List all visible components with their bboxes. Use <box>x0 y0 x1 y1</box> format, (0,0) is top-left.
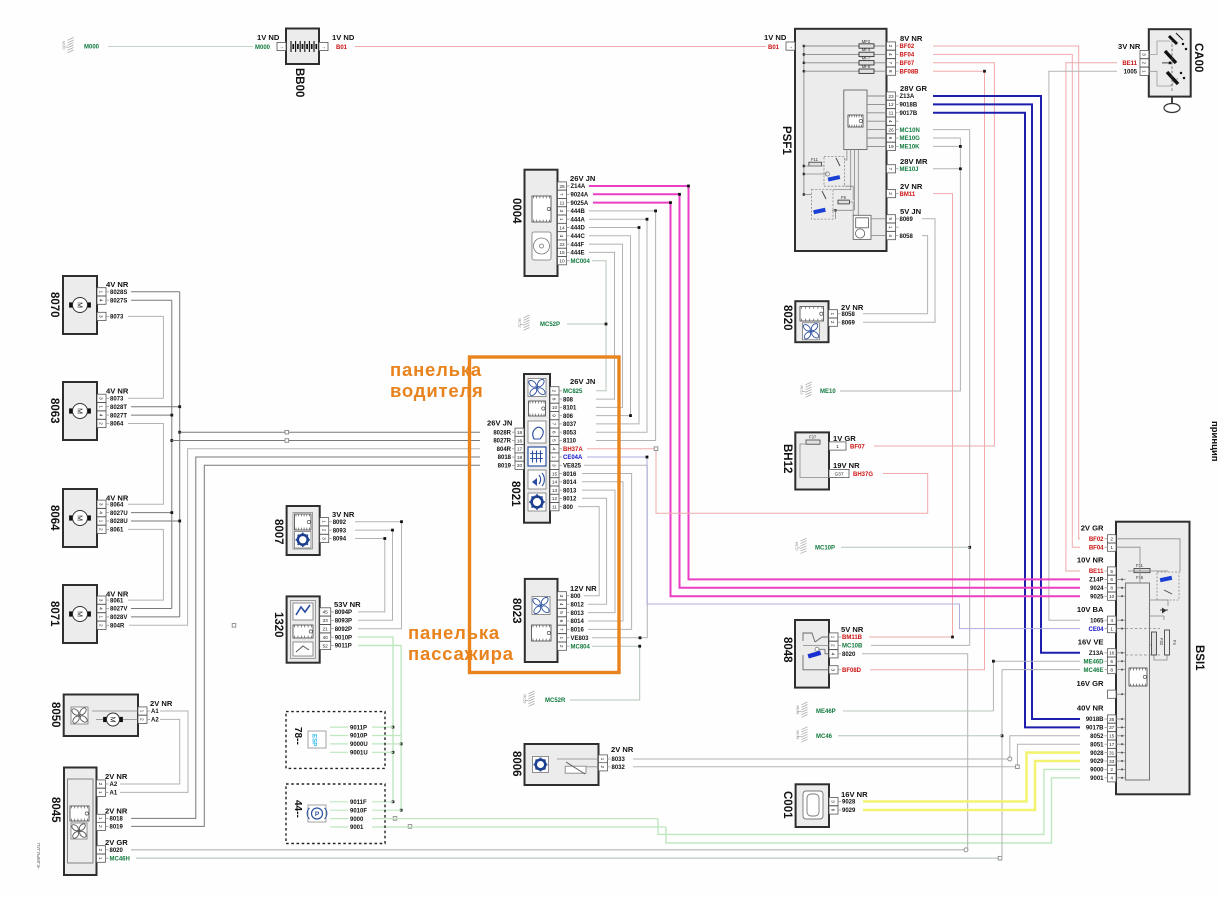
svg-text:7: 7 <box>887 61 893 64</box>
svg-text:444F: 444F <box>571 242 585 248</box>
svg-text:8021: 8021 <box>509 481 521 507</box>
svg-text:F32: F32 <box>1159 638 1164 646</box>
svg-text:9025A: 9025A <box>571 201 589 207</box>
svg-text:1: 1 <box>551 456 557 459</box>
svg-text:37: 37 <box>1109 725 1115 731</box>
svg-text:1V ND: 1V ND <box>257 33 280 42</box>
wire 8073 8070 to 8063 <box>128 316 163 398</box>
svg-text:8019: 8019 <box>498 464 512 470</box>
passenger panel switch unit 8023 <box>510 579 597 662</box>
svg-text:→: → <box>788 44 793 50</box>
svg-text:8013: 8013 <box>571 611 585 617</box>
svg-text:7: 7 <box>887 167 893 170</box>
svg-text:пассажира: пассажира <box>408 643 514 664</box>
svg-text:8052: 8052 <box>1090 734 1104 740</box>
svg-text:A1: A1 <box>110 791 118 797</box>
svg-text:B01: B01 <box>336 45 348 51</box>
svg-text:8058: 8058 <box>842 312 856 318</box>
svg-text:9028: 9028 <box>842 800 856 806</box>
svg-text:1: 1 <box>558 636 564 639</box>
svg-text:444B: 444B <box>571 209 586 215</box>
svg-text:2: 2 <box>98 624 104 627</box>
svg-text:8: 8 <box>1110 667 1113 673</box>
wire 8016 8021 to 8023 <box>582 474 632 630</box>
svg-text:5V NR: 5V NR <box>841 625 864 634</box>
svg-text:3: 3 <box>830 800 836 803</box>
svg-text:MC46: MC46 <box>796 730 800 739</box>
svg-text:78--: 78-- <box>292 727 303 745</box>
svg-text:8094: 8094 <box>333 537 347 543</box>
svg-text:28V MR: 28V MR <box>900 157 928 166</box>
svg-text:1: 1 <box>98 405 104 408</box>
svg-text:8012: 8012 <box>571 602 585 608</box>
svg-text:40V NR: 40V NR <box>1077 704 1104 713</box>
svg-text:9011P: 9011P <box>350 725 367 731</box>
svg-text:→: → <box>321 45 326 51</box>
svg-text:PSF1: PSF1 <box>780 126 792 155</box>
svg-text:BF04: BF04 <box>1089 545 1104 551</box>
svg-text:804R: 804R <box>497 447 512 453</box>
svg-text:11: 11 <box>560 200 565 206</box>
wire 8093 8007 to 1320 8093P <box>355 530 393 620</box>
wire 444B 0004 to 8021 8110 <box>589 211 656 441</box>
wire 8019 8021 to 8045 <box>131 465 480 826</box>
svg-text:MC52: MC52 <box>523 695 527 704</box>
wire MC52P ground to MC004 net <box>567 323 606 325</box>
wire 9010P 1320 to dashed 78 box <box>358 637 393 802</box>
svg-text:8092P: 8092P <box>335 627 352 633</box>
svg-text:10: 10 <box>1109 594 1115 600</box>
svg-text:444E: 444E <box>571 251 585 257</box>
svg-text:1: 1 <box>829 312 835 315</box>
wire 800 8021 to 8023 <box>578 507 599 596</box>
svg-text:2V NR: 2V NR <box>150 699 173 708</box>
svg-text:VE803: VE803 <box>571 636 590 642</box>
wire 9000 to BSI1 pale green <box>658 769 1080 834</box>
svg-text:17: 17 <box>1109 742 1115 748</box>
svg-text:Z14A: Z14A <box>571 184 586 190</box>
wire 444A 0004 to 8021 8053 <box>589 219 647 432</box>
svg-text:CA00: CA00 <box>1192 43 1204 72</box>
heater control 8020 <box>781 301 864 342</box>
svg-text:M: M <box>108 717 115 723</box>
svg-text:MC10N: MC10N <box>900 128 920 134</box>
svg-text:панелька: панелька <box>408 622 500 643</box>
svg-text:9025: 9025 <box>1090 594 1104 600</box>
svg-text:MC46: MC46 <box>816 734 833 740</box>
svg-text:26: 26 <box>888 127 894 133</box>
svg-text:8033: 8033 <box>612 757 626 763</box>
svg-text:16: 16 <box>517 438 523 444</box>
wire VE825 8021 to 8023 VE803 <box>584 465 647 638</box>
svg-text:8027T: 8027T <box>110 413 127 419</box>
svg-text:8058: 8058 <box>900 234 914 240</box>
switch module 8007 <box>272 506 355 555</box>
svg-text:3: 3 <box>558 210 564 213</box>
svg-text:1: 1 <box>97 857 103 860</box>
svg-text:1: 1 <box>1110 626 1113 632</box>
svg-text:P: P <box>315 811 320 818</box>
svg-text:444D: 444D <box>571 226 586 232</box>
svg-text:9029: 9029 <box>1090 759 1104 765</box>
svg-text:40: 40 <box>323 635 329 641</box>
svg-text:BH37A: BH37A <box>563 447 583 453</box>
wire MC10P ground to MC10B 8048 <box>841 546 970 548</box>
svg-text:26V JN: 26V JN <box>570 377 595 386</box>
svg-text:7: 7 <box>558 193 564 196</box>
svg-text:8110: 8110 <box>563 439 577 445</box>
svg-text:4: 4 <box>887 120 893 123</box>
svg-text:8016: 8016 <box>563 472 577 478</box>
svg-text:6: 6 <box>830 809 836 812</box>
svg-text:MC46H: MC46H <box>110 856 130 862</box>
svg-text:4: 4 <box>98 414 104 417</box>
svg-text:M000: M000 <box>84 45 100 51</box>
dashed box 78 ESP <box>286 712 385 769</box>
svg-text:1: 1 <box>836 444 839 450</box>
svg-text:28V GR: 28V GR <box>900 84 928 93</box>
wire 444D 0004 to 8021 8037 <box>589 228 639 424</box>
svg-text:BF02: BF02 <box>900 44 915 50</box>
svg-text:5: 5 <box>1110 569 1113 575</box>
connector C001 <box>781 784 868 827</box>
svg-text:2: 2 <box>887 45 893 48</box>
svg-text:MF7: MF7 <box>862 56 871 61</box>
svg-text:8093: 8093 <box>333 528 347 534</box>
ground MC52P <box>518 315 561 330</box>
svg-text:45: 45 <box>323 610 329 616</box>
wire 8018 8021 to 8045 <box>131 457 480 818</box>
svg-text:1V ND: 1V ND <box>332 33 355 42</box>
wire A2 8050 to 8045 <box>120 719 180 784</box>
svg-text:8051: 8051 <box>1090 742 1104 748</box>
svg-text:2: 2 <box>97 783 103 786</box>
svg-text:водителя: водителя <box>390 380 484 401</box>
svg-text:3: 3 <box>98 397 104 400</box>
window motor 8063 <box>48 382 129 440</box>
wire rows inside dashed box 44 <box>330 801 348 803</box>
svg-text:BH37G: BH37G <box>853 472 873 478</box>
svg-text:8050: 8050 <box>49 702 61 728</box>
svg-text:26V JN: 26V JN <box>487 419 512 428</box>
svg-text:8027R: 8027R <box>493 439 511 445</box>
svg-text:800: 800 <box>563 505 574 511</box>
svg-text:6: 6 <box>887 137 893 140</box>
svg-text:19: 19 <box>517 455 523 461</box>
svg-text:ME10J: ME10J <box>900 167 919 173</box>
svg-text:8: 8 <box>551 398 557 401</box>
wire MC46H rail 8045 to BSI1 MC46E <box>136 857 1002 859</box>
svg-text:8020: 8020 <box>842 652 856 658</box>
svg-text:принцип: принцип <box>1209 421 1219 462</box>
svg-text:8V NR: 8V NR <box>900 34 923 43</box>
svg-text:MC52P: MC52P <box>540 322 560 328</box>
svg-text:4V NR: 4V NR <box>106 387 129 396</box>
relay 8048 <box>781 620 864 688</box>
ground ME46P <box>796 702 836 717</box>
svg-text:26V JN: 26V JN <box>570 174 595 183</box>
svg-text:8: 8 <box>1110 586 1113 592</box>
svg-text:7: 7 <box>558 628 564 631</box>
svg-text:1: 1 <box>98 520 104 523</box>
wire BM11 PSF1 to 8048 BM11B <box>869 194 953 637</box>
driver panel switch unit 8021 <box>487 374 595 523</box>
svg-text:M: M <box>75 302 82 308</box>
svg-text:8027U: 8027U <box>110 511 128 517</box>
svg-text:5: 5 <box>551 439 557 442</box>
svg-text:BF07: BF07 <box>850 445 865 451</box>
svg-text:2V GR: 2V GR <box>1081 524 1104 533</box>
svg-text:8101: 8101 <box>563 406 577 412</box>
svg-text:25: 25 <box>559 184 565 190</box>
svg-text:8032: 8032 <box>612 765 626 771</box>
svg-text:CE04: CE04 <box>1088 627 1104 633</box>
svg-text:8064: 8064 <box>110 422 124 428</box>
svg-text:8006: 8006 <box>510 751 522 777</box>
svg-text:1: 1 <box>1110 545 1113 551</box>
svg-text:Z13A: Z13A <box>1089 651 1104 657</box>
svg-text:2: 2 <box>1110 537 1113 543</box>
wire B01 battery to PSF1 <box>355 46 766 48</box>
wire 8094 8007 to 1320 8094P <box>355 539 385 612</box>
svg-text:A1: A1 <box>151 709 159 715</box>
wire rows inside dashed box 78 <box>330 726 348 728</box>
svg-text:19: 19 <box>888 144 894 150</box>
svg-text:9010P: 9010P <box>350 734 367 740</box>
svg-text:4: 4 <box>551 447 557 450</box>
svg-text:22: 22 <box>559 242 565 248</box>
svg-text:8061: 8061 <box>110 528 124 534</box>
svg-text:MC10B: MC10B <box>842 644 863 650</box>
svg-text:15: 15 <box>552 471 558 477</box>
wire 9025A 0004 to BSI1 9025 magenta <box>593 203 1080 597</box>
wire 8012 8021 to 8023 <box>582 498 607 604</box>
svg-text:8018: 8018 <box>110 817 124 823</box>
svg-text:15: 15 <box>1109 734 1115 740</box>
svg-text:4V NR: 4V NR <box>106 590 129 599</box>
svg-text:ME10K: ME10K <box>900 145 921 151</box>
wire 9001 to BSI1 pale green <box>666 778 1080 843</box>
svg-text:BM11B: BM11B <box>842 635 863 641</box>
orange highlight box driver-passenger panel <box>470 357 620 673</box>
wire 444F 0004 to 8021 8101 <box>589 244 623 407</box>
svg-text:MC10P: MC10P <box>815 545 835 551</box>
wire MC804 8023 to MC52R ground <box>570 646 640 700</box>
wire 8058 PSF1 to 8020 <box>863 236 928 314</box>
ground M000 <box>62 38 100 53</box>
svg-text:1: 1 <box>98 616 104 619</box>
wire 9029 C001 to BSI1 yellow <box>863 761 1080 810</box>
svg-text:BSI1: BSI1 <box>1193 645 1205 671</box>
fan switch 8006 <box>510 744 634 785</box>
svg-text:8094P: 8094P <box>335 610 352 616</box>
svg-text:8007: 8007 <box>272 519 284 545</box>
svg-text:ME46: ME46 <box>796 706 800 715</box>
svg-text:9024: 9024 <box>1090 586 1104 592</box>
svg-text:9024A: 9024A <box>571 193 589 199</box>
wire 804R 8021 to 8071 <box>129 449 480 626</box>
wire 444E 0004 to 8021 808 <box>589 252 615 399</box>
ground MC46 <box>796 727 833 742</box>
heater blower unit 8045 <box>49 768 130 876</box>
svg-text:3: 3 <box>830 668 836 671</box>
window motor 8070 <box>48 276 129 334</box>
svg-text:1005: 1005 <box>1124 70 1138 76</box>
svg-text:53V NR: 53V NR <box>334 600 361 609</box>
svg-text:Z13A: Z13A <box>900 94 915 100</box>
svg-text:20: 20 <box>517 463 523 469</box>
svg-text:BF07: BF07 <box>900 61 915 67</box>
svg-text:18: 18 <box>517 430 523 436</box>
svg-text:2V NR: 2V NR <box>900 182 923 191</box>
svg-text:1: 1 <box>97 791 103 794</box>
svg-text:4: 4 <box>830 652 836 655</box>
svg-text:9001: 9001 <box>1090 776 1104 782</box>
wire Z14A 0004 to BSI1 Z14P magenta <box>589 186 1080 579</box>
svg-text:CE04A: CE04A <box>563 455 583 461</box>
svg-text:2V NR: 2V NR <box>105 772 128 781</box>
svg-text:8064: 8064 <box>48 505 60 531</box>
wire 444C 0004 to 8021 806 <box>589 236 631 416</box>
svg-text:35: 35 <box>1109 717 1115 723</box>
svg-text:7: 7 <box>551 423 557 426</box>
svg-text:8: 8 <box>887 70 893 73</box>
svg-text:8027V: 8027V <box>110 607 127 613</box>
svg-text:8014: 8014 <box>571 619 585 625</box>
svg-text:3V NR: 3V NR <box>1118 42 1141 51</box>
svg-text:5: 5 <box>558 611 564 614</box>
svg-text:F9: F9 <box>841 195 847 200</box>
svg-text:11: 11 <box>552 505 557 511</box>
svg-text:9000U: 9000U <box>350 742 368 748</box>
svg-text:8053: 8053 <box>563 430 577 436</box>
wire BF04 PSF1 to BSI1 <box>933 54 1080 547</box>
svg-text:MC804: MC804 <box>571 644 591 650</box>
svg-text:2: 2 <box>139 718 145 721</box>
svg-text:MC46E: MC46E <box>1083 668 1103 674</box>
svg-text:8037: 8037 <box>563 422 577 428</box>
wire 9011P 1320 to dashed boxes <box>358 646 401 811</box>
svg-text:4V NR: 4V NR <box>106 494 129 503</box>
svg-text:VE825: VE825 <box>563 464 582 470</box>
wire 9028 C001 to BSI1 yellow <box>863 753 1080 802</box>
svg-text:BF08D: BF08D <box>842 668 862 674</box>
svg-text:панелька: панелька <box>390 359 482 380</box>
svg-text:1: 1 <box>558 218 564 221</box>
wire 8014 8021 to 8023 <box>582 482 623 621</box>
svg-text:444C: 444C <box>571 234 586 240</box>
svg-text:2V NR: 2V NR <box>611 745 634 754</box>
svg-text:6: 6 <box>558 620 564 623</box>
svg-text:8045: 8045 <box>49 797 61 823</box>
wire 8061 8064 to 8071 <box>128 529 163 600</box>
wire BH37A 8021 to BH12 BH37G red <box>587 449 928 514</box>
svg-text:4: 4 <box>98 299 104 302</box>
svg-text:MF2: MF2 <box>862 39 871 44</box>
svg-text:12: 12 <box>888 102 894 108</box>
wire 9018B PSF1 to BSI1 blue <box>933 104 1080 719</box>
svg-text:8023: 8023 <box>510 598 522 624</box>
svg-text:ME46P: ME46P <box>816 709 836 715</box>
wire 8069 PSF1 to 8020 <box>863 219 935 322</box>
svg-text:13: 13 <box>552 488 558 494</box>
svg-text:16V VE: 16V VE <box>1078 637 1104 646</box>
svg-text:3: 3 <box>558 594 564 597</box>
svg-text:M: M <box>75 515 82 521</box>
svg-text:4: 4 <box>887 53 893 56</box>
svg-text:M: M <box>75 611 82 617</box>
svg-text:10: 10 <box>559 259 565 265</box>
body controller BSI1 <box>1076 522 1205 795</box>
svg-text:17: 17 <box>517 447 523 453</box>
svg-text:1: 1 <box>97 817 103 820</box>
wire 8020 8048 down to bottom rail <box>862 654 968 850</box>
svg-text:2: 2 <box>320 529 326 532</box>
wire ME46P ground to BSI1 ME46D <box>843 710 993 712</box>
svg-text:21: 21 <box>323 627 329 633</box>
svg-text:9010F: 9010F <box>350 808 367 814</box>
svg-text:4: 4 <box>558 234 564 237</box>
svg-text:5: 5 <box>887 217 893 220</box>
svg-text:10: 10 <box>552 405 558 411</box>
wire 9024A 0004 to BSI1 9024 magenta <box>593 194 1080 588</box>
svg-text:804R: 804R <box>110 624 125 630</box>
wire BF02 PSF1 to BSI1 <box>933 46 1080 539</box>
svg-text:BF04: BF04 <box>900 53 915 59</box>
svg-text:9018B: 9018B <box>900 103 918 109</box>
svg-text:9017B: 9017B <box>1086 726 1104 732</box>
svg-text:1: 1 <box>98 290 104 293</box>
wire MC10N PSF1 down to MC10P MC10B <box>933 130 970 646</box>
svg-text:19V NR: 19V NR <box>833 461 860 470</box>
svg-text:MC10: MC10 <box>795 542 799 551</box>
svg-text:808: 808 <box>563 397 574 403</box>
svg-text:6: 6 <box>1110 577 1113 583</box>
svg-text:806: 806 <box>563 414 574 420</box>
svg-text:8028S: 8028S <box>110 290 127 296</box>
svg-text:2: 2 <box>829 321 835 324</box>
svg-text:2: 2 <box>887 192 893 195</box>
svg-text:33: 33 <box>323 618 329 624</box>
svg-text:BF08B: BF08B <box>900 69 920 75</box>
svg-text:2: 2 <box>98 528 104 531</box>
wire BF08B PSF1 to 8048 BF08D <box>870 71 985 670</box>
svg-text:3: 3 <box>98 599 104 602</box>
svg-text:2: 2 <box>1110 767 1113 773</box>
svg-text:9018B: 9018B <box>1086 717 1104 723</box>
svg-text:M: M <box>75 408 82 414</box>
svg-text:1: 1 <box>139 710 145 713</box>
battery BB00 <box>255 29 355 98</box>
svg-text:3: 3 <box>98 503 104 506</box>
svg-text:10V BA: 10V BA <box>1077 605 1104 614</box>
svg-text:2: 2 <box>98 422 104 425</box>
svg-text:11: 11 <box>889 111 894 117</box>
svg-text:8014: 8014 <box>563 480 577 486</box>
svg-text:ПУГ7ЫМГЭ-: ПУГ7ЫМГЭ- <box>36 843 41 869</box>
svg-text:ESP: ESP <box>311 734 318 746</box>
svg-text:8048: 8048 <box>781 637 793 663</box>
svg-text:BH12: BH12 <box>781 444 793 473</box>
svg-text:9011P: 9011P <box>335 644 352 650</box>
svg-text:14: 14 <box>559 225 565 231</box>
svg-text:4: 4 <box>558 603 564 606</box>
svg-text:2V NR: 2V NR <box>105 807 128 816</box>
svg-text:9: 9 <box>551 414 557 417</box>
svg-text:9001U: 9001U <box>350 751 368 757</box>
svg-text:MC52: MC52 <box>518 319 522 328</box>
wire 8013 8021 to 8023 <box>582 490 615 612</box>
